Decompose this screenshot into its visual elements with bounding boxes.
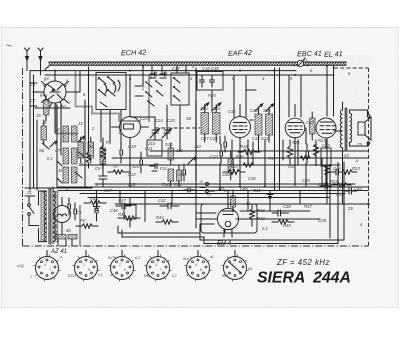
svg-text:R47: R47 — [304, 204, 312, 209]
svg-text:7: 7 — [49, 268, 51, 272]
wire gray route psu — [79, 205, 81, 246]
wire grid ECH — [35, 107, 70, 109]
svg-text:E31: E31 — [222, 274, 228, 278]
resistor R22 — [332, 183, 351, 187]
wire top bus 3 — [45, 74, 334, 76]
capacitor on rail 2 — [306, 144, 309, 163]
IF can 1 coil b — [213, 105, 221, 143]
capacitor C39 — [183, 164, 186, 181]
resistor R3 vertical — [101, 138, 106, 170]
EM4 target bar — [231, 190, 236, 212]
vertical wire 220 — [219, 136, 221, 190]
resistor R41 — [118, 216, 140, 220]
svg-text:ZF = 452 kHz: ZF = 452 kHz — [276, 258, 330, 267]
svg-text:R41: R41 — [118, 212, 126, 217]
svg-text:K5: K5 — [248, 267, 252, 271]
svg-text:C12: C12 — [128, 182, 136, 187]
svg-text:EL 41: EL 41 — [324, 49, 343, 59]
capacitor C47 — [116, 203, 131, 209]
heater dropper block — [56, 235, 77, 247]
svg-text:g4: g4 — [44, 76, 49, 81]
svg-text:S4: S4 — [52, 230, 58, 235]
resistor R23 — [342, 170, 357, 174]
labels top mid — [141, 66, 221, 141]
svg-text:J2: J2 — [54, 127, 60, 132]
tuning gang C24 — [150, 125, 159, 139]
osc box outline — [147, 140, 162, 156]
svg-text:C43: C43 — [322, 143, 330, 148]
hatched resistor between EBC EL — [310, 112, 316, 140]
dashed border top-right — [334, 67, 369, 69]
trimmer arrow C35 — [266, 104, 274, 111]
resistor R20 vertical — [314, 140, 319, 165]
svg-text:C47: C47 — [104, 188, 112, 193]
coil bank box row3 a — [63, 167, 69, 183]
wire drops above EBC41 — [289, 75, 301, 117]
capacitor C31 — [224, 136, 227, 152]
labels IF2 — [222, 108, 271, 193]
capacitor C21 — [150, 164, 157, 172]
coil L2 — [41, 120, 47, 144]
socket 3 — [108, 254, 135, 281]
svg-text:J3: J3 — [77, 121, 83, 126]
svg-text:C19: C19 — [128, 144, 136, 149]
trimmer arrow C27 — [201, 103, 209, 110]
capacitor C45 — [344, 188, 357, 194]
capacitor C52 — [74, 203, 76, 220]
svg-text:C39: C39 — [177, 172, 185, 177]
wire EM4 row a — [240, 210, 310, 212]
hatched resistor EAF grid — [228, 151, 234, 180]
svg-text:5o: 5o — [246, 201, 251, 206]
svg-text:ECH 42: ECH 42 — [121, 48, 146, 58]
socket 1 — [33, 254, 60, 281]
resistor R43 PSU — [84, 201, 106, 205]
capacitor C41 psu — [95, 198, 98, 221]
gang link dashed — [155, 127, 200, 129]
svg-text:3: 3 — [155, 263, 157, 267]
svg-text:EBC 41: EBC 41 — [297, 49, 322, 59]
wire vertical 85 — [84, 100, 86, 188]
svg-text:J4: J4 — [79, 136, 85, 141]
wire bottom rail d — [80, 193, 345, 195]
svg-text:5b: 5b — [66, 228, 71, 233]
socket 2 — [72, 254, 99, 281]
wire drops above EL41 — [333, 66, 335, 116]
svg-text:C34: C34 — [250, 108, 258, 113]
svg-text:R7: R7 — [113, 164, 119, 169]
coil bank box row1 a — [63, 126, 69, 142]
svg-text:C7: C7 — [55, 148, 61, 153]
padder coil d — [168, 143, 174, 164]
ground symbol 1 — [94, 203, 100, 211]
svg-text:0,1: 0,1 — [172, 274, 177, 278]
tube EM4 magic eye V5 — [196, 190, 245, 237]
svg-text:1: 1 — [118, 130, 120, 135]
svg-text:C46: C46 — [228, 109, 236, 114]
hexode spokes — [42, 82, 69, 108]
antenna 2 — [38, 48, 43, 62]
electrolytic C40 — [124, 198, 136, 227]
tube ECH42 triode V1b — [112, 75, 149, 186]
socket row small labels — [17, 255, 252, 279]
capacitor C38 — [272, 210, 289, 216]
svg-text:C21: C21 — [145, 146, 153, 151]
svg-text:C32 S32: C32 S32 — [252, 136, 269, 141]
trimmer arrow padder — [188, 157, 196, 164]
dial lamp — [293, 57, 309, 67]
capacitor C44 — [330, 169, 342, 175]
svg-text:6,3: 6,3 — [135, 256, 140, 260]
capacitor C20 — [140, 152, 143, 173]
switch arcs box A — [104, 83, 116, 94]
wire vertical pair right 2 — [279, 68, 281, 190]
svg-text:4: 4 — [44, 263, 46, 267]
svg-text:1: 1 — [97, 76, 99, 81]
wire EAF screen — [250, 119, 253, 121]
svg-text:R46: R46 — [236, 154, 244, 159]
wire vertical 212 — [211, 90, 213, 112]
band switch box B — [171, 73, 189, 105]
svg-text:J10: J10 — [193, 144, 201, 149]
electrolytic C43 — [321, 140, 331, 186]
band switch contact cluster — [135, 80, 163, 106]
tuning gang C25 — [162, 125, 171, 139]
resistor R13 — [223, 170, 245, 175]
svg-text:R6: R6 — [88, 144, 94, 149]
svg-text:S10: S10 — [213, 106, 221, 111]
svg-text:J6: J6 — [57, 168, 63, 173]
coil bank box row2 a — [63, 148, 69, 164]
resistor R45 — [272, 220, 294, 224]
padder coil f — [177, 165, 182, 186]
resistor R43 vertical — [250, 204, 254, 226]
capacitor C51 — [68, 198, 70, 215]
junction dots bus — [54, 65, 328, 76]
svg-text:R3: R3 — [100, 154, 106, 159]
wire box B drop — [167, 105, 180, 151]
svg-text:R21: R21 — [292, 140, 300, 145]
svg-text:C45: C45 — [354, 186, 362, 191]
coil bank box row3 b — [72, 167, 78, 183]
trimmer arrow left — [50, 141, 57, 147]
svg-text:F11: F11 — [160, 166, 167, 171]
svg-text:9o4: 9o4 — [183, 257, 189, 261]
socket 6 — [221, 254, 248, 281]
antenna down leads — [27, 62, 41, 75]
dashed mains border left — [22, 68, 24, 246]
speaker LS — [358, 115, 371, 145]
band switch box A — [96, 73, 126, 110]
capacitor on rail — [220, 144, 223, 163]
capacitor C18 — [160, 72, 166, 78]
svg-text:C1: C1 — [30, 82, 35, 87]
svg-text:C42: C42 — [158, 198, 166, 203]
svg-text:Z10: Z10 — [147, 141, 156, 146]
tube AZ41 rectifier V6 — [54, 198, 71, 235]
svg-text:8: 8 — [200, 268, 202, 272]
svg-text:0,1: 0,1 — [47, 156, 53, 161]
svg-text:C22: C22 — [128, 172, 136, 177]
svg-text:C17: C17 — [172, 66, 180, 71]
shielded bus braid — [45, 62, 346, 71]
junction dots rails — [96, 157, 370, 205]
svg-text:Z6: Z6 — [347, 206, 354, 211]
wire vertical 265 — [264, 140, 266, 186]
wire bottom rail e — [88, 197, 330, 199]
svg-text:C41: C41 — [253, 188, 261, 193]
svg-text:S2: S2 — [52, 194, 58, 199]
capacitor C46 — [320, 183, 332, 189]
trimmer arrow C28 — [213, 103, 221, 110]
wire EL41 cathode — [325, 165, 329, 176]
wire gray route cathode — [56, 104, 78, 134]
capacitor C42 — [160, 203, 179, 209]
labels cluster osc — [113, 118, 185, 177]
mains squiggle mark — [7, 45, 12, 46]
capacitor C9 — [99, 170, 107, 187]
svg-text:0,1: 0,1 — [98, 273, 103, 277]
svg-text:o,1: o,1 — [262, 226, 268, 231]
svg-text:SIERA 244A: SIERA 244A — [257, 270, 351, 287]
oscillator coil a — [78, 137, 84, 163]
capacitor group box C — [197, 72, 223, 91]
svg-text:5: 5 — [88, 268, 90, 272]
ground symbol 2 — [267, 191, 273, 199]
wire bottom rail f — [115, 203, 369, 205]
wire vertical pair right 1 — [274, 68, 276, 190]
svg-text:1M: 1M — [218, 186, 224, 191]
svg-text:R28: R28 — [288, 164, 296, 169]
svg-text:J7: J7 — [77, 162, 83, 167]
schematic speckle — [22, 55, 370, 250]
svg-text:C36: C36 — [248, 176, 256, 181]
wire triode grid link — [130, 117, 155, 126]
IF can 1 coil a — [201, 105, 209, 143]
svg-text:E31: E31 — [68, 274, 74, 278]
svg-text:a: a — [60, 255, 62, 259]
wire vertical left 3 — [36, 120, 38, 190]
tube EL41 V4 — [316, 66, 342, 204]
wire vertical 88 — [88, 67, 90, 150]
wire vertical 298 — [297, 140, 299, 165]
svg-text:Z1: Z1 — [26, 190, 32, 195]
svg-text:Z4: Z4 — [343, 153, 350, 158]
svg-text:R24: R24 — [336, 192, 344, 197]
tube EBC41 V3 — [285, 105, 305, 186]
wire horizontal left — [25, 187, 92, 189]
svg-text:a1: a1 — [210, 255, 214, 259]
wire EM4 row b — [236, 218, 320, 220]
svg-text:4: 4 — [195, 263, 197, 267]
svg-text:S8: S8 — [186, 116, 192, 121]
nested loop wire 1 — [118, 162, 344, 240]
svg-text:C23: C23 — [140, 116, 148, 121]
svg-text:R18: R18 — [240, 144, 248, 149]
svg-text:C44: C44 — [333, 166, 341, 171]
padder coil e — [168, 169, 174, 186]
svg-text:R48: R48 — [240, 186, 248, 191]
trimmer arrow C34 — [255, 104, 263, 111]
svg-text:J10: J10 — [175, 148, 183, 153]
svg-text:S3: S3 — [52, 224, 58, 229]
label R43 R42 — [257, 208, 265, 221]
wire vertical left 1 — [29, 71, 31, 190]
svg-text:R44: R44 — [156, 215, 164, 220]
wire gray route agc — [195, 100, 197, 180]
wire vertical 316 — [315, 140, 317, 165]
resistor chain rail — [300, 156, 310, 160]
wire vertical 283 — [282, 140, 284, 160]
EM4 enclosure — [201, 204, 257, 233]
oscillator coil c — [100, 143, 106, 169]
power transformer T1 — [39, 187, 58, 244]
resistor R18 — [238, 150, 260, 155]
svg-text:2: 2 — [118, 263, 121, 267]
svg-text:1: 1 — [83, 263, 85, 267]
svg-text:EAF 42: EAF 42 — [228, 48, 252, 58]
labels right — [283, 120, 363, 228]
trimmer arrow mid — [78, 136, 85, 142]
wire vertical 232 — [231, 140, 233, 165]
resistor R40 PSU — [76, 224, 98, 228]
svg-text:6: 6 — [124, 268, 126, 272]
tube EAF42 V2 — [230, 105, 251, 186]
vertical wire 258 — [258, 142, 260, 151]
svg-text:C25: C25 — [167, 118, 175, 123]
resistor R6 vertical — [86, 150, 90, 168]
svg-text:0,05: 0,05 — [318, 218, 327, 223]
wire EM4 grid lead — [196, 213, 216, 233]
grid stopper wires — [30, 83, 37, 106]
wire drops from bus mid — [143, 66, 186, 86]
labels psu — [26, 188, 166, 235]
svg-text:R45: R45 — [283, 223, 291, 228]
chassis dash-dot bottom — [23, 245, 369, 247]
wire vertical left 2 — [33, 75, 35, 188]
svg-text:C16 C18: C16 C18 — [202, 66, 219, 71]
tube ECH42 hexode V1 — [33, 71, 80, 133]
wire bottom rail a — [95, 183, 355, 185]
svg-text:R22: R22 — [330, 179, 338, 184]
resistor R7 — [108, 170, 129, 174]
svg-text:o2(i): o2(i) — [17, 264, 24, 268]
resistor chain rail 2 — [243, 163, 253, 167]
labels cluster left — [36, 113, 111, 173]
wire hexode cathode drop — [57, 105, 61, 188]
pickup jack — [199, 179, 215, 193]
svg-text:A: A — [199, 179, 203, 184]
socket 4 — [144, 254, 171, 281]
svg-text:C47: C47 — [118, 198, 126, 203]
wire mid rail 3 — [80, 164, 340, 166]
wire mid rail 1 — [150, 150, 369, 152]
resistor R21 vertical — [288, 140, 293, 165]
svg-text:6o7: 6o7 — [108, 256, 114, 260]
svg-text:C48: C48 — [162, 182, 170, 187]
resistor R44 — [156, 220, 178, 224]
wire verticals between rails — [97, 191, 301, 234]
wire gray route grid lead — [76, 71, 142, 121]
wire box A drops — [101, 110, 121, 148]
svg-text:C24: C24 — [155, 118, 163, 123]
svg-text:C27 C28: C27 C28 — [201, 136, 218, 141]
svg-text:R43: R43 — [90, 196, 98, 201]
IF can 2 coil b — [266, 107, 273, 142]
svg-text:C9: C9 — [95, 166, 101, 171]
vertical wire 306 — [305, 128, 307, 186]
svg-text:R19: R19 — [268, 156, 276, 161]
svg-text:S6: S6 — [39, 148, 45, 153]
hexode pin labels — [40, 76, 71, 105]
switch stroke — [75, 172, 82, 178]
nested loop wire 2 — [122, 163, 338, 244]
wire hexode anode — [79, 71, 81, 92]
extra switch diagonals coil bank — [57, 152, 84, 183]
output transformer T2 — [340, 102, 367, 204]
svg-text:S26: S26 — [263, 108, 271, 113]
wave switch contact — [42, 143, 49, 149]
svg-text:7: 7 — [160, 268, 162, 272]
svg-text:C39: C39 — [302, 178, 310, 183]
svg-text:Z5: Z5 — [356, 142, 363, 147]
socket 5 — [184, 254, 211, 281]
svg-text:J5: J5 — [41, 120, 47, 125]
wire top bus 2 — [30, 70, 296, 72]
antenna 1 — [25, 48, 30, 62]
chassis connection stubs — [47, 251, 235, 257]
svg-text:C33: C33 — [210, 154, 218, 159]
vertical wire 322 — [321, 151, 323, 186]
capacitor C30 — [184, 188, 194, 192]
svg-text:AZ 41: AZ 41 — [50, 249, 67, 255]
coil bank box row2 b — [72, 148, 78, 164]
wire mid rail 2 — [112, 157, 369, 159]
svg-text:C38: C38 — [283, 204, 291, 209]
nested loop wire 3 — [329, 165, 331, 238]
svg-text:g1: g1 — [40, 92, 45, 97]
svg-text:+A: +A — [206, 192, 211, 197]
wire bottom rail pair c — [58, 190, 369, 192]
wire vertical 196 — [195, 68, 197, 228]
svg-text:S10: S10 — [165, 142, 173, 147]
svg-text:1: 1 — [232, 263, 234, 267]
capacitor C16 — [150, 72, 156, 78]
vertical wire 253 — [252, 142, 254, 165]
wire bottom rail pair b — [58, 186, 369, 188]
wire gray route osc — [148, 75, 150, 122]
svg-text:S10: S10 — [132, 164, 140, 169]
capacitor C14 — [120, 142, 123, 163]
coil bank box row1 b — [72, 126, 78, 142]
dashed border right — [368, 68, 370, 246]
wire drops above EAF42 — [234, 75, 256, 117]
svg-text:R24: R24 — [208, 93, 216, 98]
svg-text:R1: R1 — [106, 140, 111, 145]
svg-text:R23: R23 — [352, 166, 360, 171]
mains switch S1 — [25, 196, 39, 226]
oscillator coil b — [88, 137, 94, 163]
svg-text:S10: S10 — [200, 106, 208, 111]
antenna coil L1 — [44, 95, 50, 121]
wire vertical 248 — [247, 140, 249, 165]
extra scatter labels — [30, 64, 363, 231]
svg-text:C2: C2 — [30, 98, 36, 103]
svg-text:1: 1 — [30, 275, 32, 279]
IF can 2 coil a — [255, 107, 262, 142]
svg-text:15: 15 — [36, 113, 41, 118]
svg-text:E31: E31 — [144, 274, 150, 278]
